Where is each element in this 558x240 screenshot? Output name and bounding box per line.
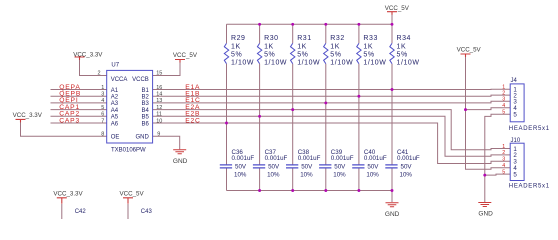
svg-text:A1: A1 [111,88,119,94]
svg-text:1/10W: 1/10W [363,60,386,67]
svg-text:1/10W: 1/10W [330,60,353,67]
svg-text:7: 7 [101,118,104,124]
svg-text:VCCA: VCCA [111,77,128,83]
svg-text:5%: 5% [363,52,374,59]
svg-text:1/10W: 1/10W [264,60,287,67]
svg-text:1/10W: 1/10W [231,60,254,67]
svg-text:1: 1 [101,85,104,91]
svg-text:1/10W: 1/10W [297,60,320,67]
svg-text:1K: 1K [330,43,340,50]
svg-text:VCCB: VCCB [132,77,149,83]
svg-text:0.001uF: 0.001uF [298,155,321,162]
svg-text:GND: GND [385,211,400,218]
svg-text:10%: 10% [400,172,413,179]
svg-text:14: 14 [156,92,162,98]
svg-text:VCC_5V: VCC_5V [457,47,482,54]
svg-text:5%: 5% [297,52,308,59]
svg-text:B4: B4 [141,108,149,114]
svg-text:1K: 1K [231,43,241,50]
svg-text:11: 11 [156,112,162,118]
svg-text:10%: 10% [366,172,379,179]
svg-text:5%: 5% [397,52,408,59]
svg-text:C43: C43 [141,209,153,215]
svg-text:R33: R33 [363,35,378,42]
svg-text:B2: B2 [141,95,149,101]
svg-text:C42: C42 [75,209,87,215]
svg-text:1: 1 [502,144,505,150]
svg-text:GND: GND [135,135,149,141]
svg-text:U7: U7 [111,62,119,68]
svg-text:5%: 5% [231,52,242,59]
svg-text:1K: 1K [297,43,307,50]
svg-text:8: 8 [101,132,104,138]
svg-text:GND: GND [173,158,188,165]
svg-text:R32: R32 [330,35,345,42]
svg-text:VCC_3.3V: VCC_3.3V [73,51,103,58]
svg-text:R29: R29 [231,35,246,42]
svg-text:B6: B6 [141,121,149,127]
svg-text:50V: 50V [301,164,313,171]
svg-text:5%: 5% [330,52,341,59]
svg-text:10%: 10% [300,172,313,179]
svg-text:3: 3 [101,92,104,98]
svg-text:2: 2 [97,70,100,76]
svg-text:4: 4 [502,163,505,169]
svg-text:9: 9 [157,132,160,138]
svg-text:5: 5 [502,110,505,116]
svg-text:1K: 1K [264,43,274,50]
svg-text:B3: B3 [141,101,149,107]
svg-text:A2: A2 [111,95,119,101]
svg-text:1/10W: 1/10W [397,60,420,67]
svg-text:VCC_5V: VCC_5V [173,52,198,59]
svg-text:R34: R34 [397,35,412,42]
svg-text:12: 12 [156,105,162,111]
svg-text:5: 5 [502,169,505,175]
svg-text:J10: J10 [511,138,521,144]
svg-text:HEADER5x1: HEADER5x1 [509,184,550,190]
svg-text:16: 16 [156,85,162,91]
svg-text:B5: B5 [141,115,149,121]
svg-text:4: 4 [502,103,505,109]
svg-text:A6: A6 [111,121,119,127]
svg-text:50V: 50V [401,164,413,171]
svg-text:15: 15 [156,70,162,76]
svg-text:50V: 50V [268,164,280,171]
svg-text:1K: 1K [363,43,373,50]
svg-text:13: 13 [156,98,162,104]
svg-text:5%: 5% [264,52,275,59]
svg-text:3: 3 [502,97,505,103]
svg-text:50V: 50V [334,164,346,171]
svg-text:J4: J4 [511,78,518,84]
svg-text:5: 5 [101,105,104,111]
svg-text:0.001uF: 0.001uF [364,155,387,162]
svg-text:6: 6 [101,112,104,118]
svg-text:0.001uF: 0.001uF [265,155,288,162]
svg-text:0.001uF: 0.001uF [331,155,354,162]
svg-text:VCC_3.3V: VCC_3.3V [13,112,43,119]
svg-text:VCC_3.3V: VCC_3.3V [53,191,83,198]
svg-text:10: 10 [156,118,162,124]
svg-text:5: 5 [513,112,517,119]
svg-text:GND: GND [478,210,493,217]
svg-text:1K: 1K [397,43,407,50]
svg-text:HEADER5x1: HEADER5x1 [509,126,550,132]
svg-text:A4: A4 [111,108,119,114]
svg-text:2: 2 [502,90,505,96]
svg-text:0.001uF: 0.001uF [397,155,420,162]
svg-text:2: 2 [502,150,505,156]
svg-text:0.001uF: 0.001uF [232,155,255,162]
svg-text:TXB0106PW: TXB0106PW [111,147,146,153]
svg-text:R31: R31 [297,35,312,42]
svg-text:A3: A3 [111,101,119,107]
svg-text:3: 3 [502,157,505,163]
svg-text:50V: 50V [235,164,247,171]
svg-text:50V: 50V [367,164,379,171]
svg-text:5: 5 [513,171,517,178]
svg-text:4: 4 [101,98,104,104]
svg-text:VCC_5V: VCC_5V [120,191,145,198]
svg-text:10%: 10% [333,172,346,179]
svg-text:B1: B1 [141,88,149,94]
svg-text:E2C: E2C [185,117,200,124]
svg-text:VCC_5V: VCC_5V [385,5,410,12]
svg-text:OE: OE [111,135,120,141]
svg-text:CAP3: CAP3 [59,117,80,124]
svg-text:10%: 10% [267,172,280,179]
svg-text:A5: A5 [111,115,119,121]
svg-text:10%: 10% [234,172,247,179]
svg-text:R30: R30 [264,35,279,42]
